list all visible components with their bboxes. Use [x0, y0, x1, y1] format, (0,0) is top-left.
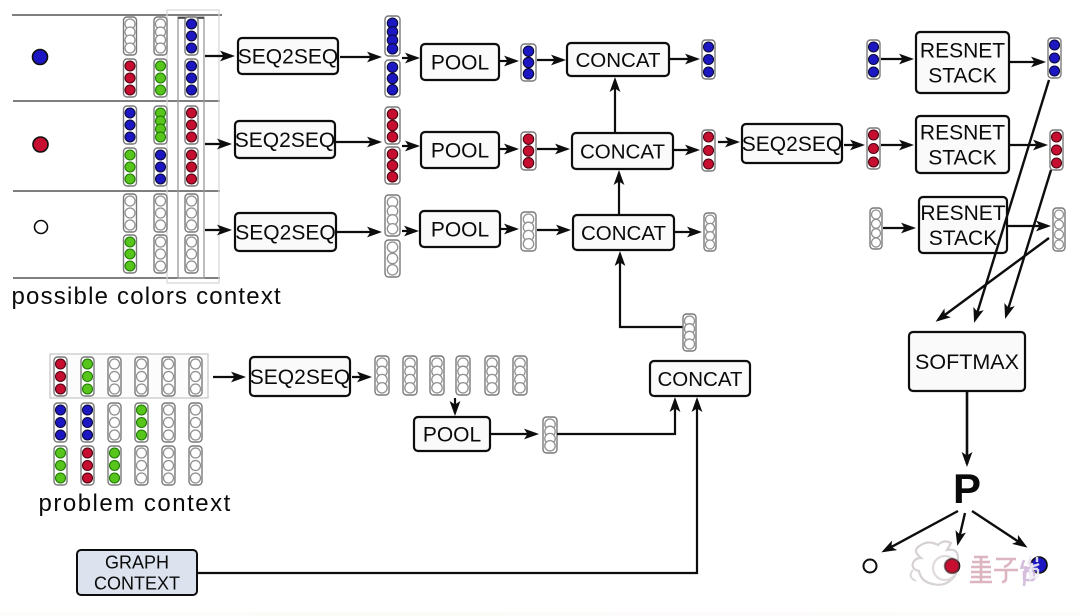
arrow pills to pool row1	[402, 57, 417, 59]
pill ctx r2c3 bottom	[185, 148, 198, 186]
arrow pool out problem	[491, 433, 536, 435]
pill problem r2c3	[108, 403, 121, 442]
pill ctx r1c2 top	[154, 17, 167, 55]
arrow table to seq2seq row2	[205, 143, 229, 145]
box SEQ2SEQ row2 second	[742, 124, 842, 163]
pill ctx r1c2 bottom	[154, 59, 167, 97]
arrow pool to pill row1	[500, 60, 516, 62]
arrow concat out row3	[675, 231, 699, 233]
arrow P to blue	[972, 511, 1025, 546]
svg-text:CONTEXT: CONTEXT	[94, 574, 180, 594]
arrow pill to concat row2	[537, 148, 567, 150]
arrow table to seq2seq row3	[205, 229, 229, 231]
watermark logo	[911, 541, 958, 584]
pill resnet in row2	[867, 128, 880, 169]
pill pool out row3	[521, 212, 536, 251]
arrow problem to seq2seq	[213, 376, 243, 378]
svg-text:POOL: POOL	[431, 140, 489, 163]
pill problem r2c5	[162, 403, 175, 442]
pill resnet in row1	[867, 40, 880, 79]
svg-text:possible colors context: possible colors context	[12, 283, 282, 310]
arrow seq2seq2 to pill row2	[844, 144, 862, 146]
pill problem seq out 1	[375, 356, 389, 395]
pill ctx r1c1 top	[124, 17, 137, 55]
pill problem r3c3	[108, 446, 121, 485]
pill ctx r1c1 bottom	[124, 59, 137, 97]
svg-text:GRAPH: GRAPH	[105, 552, 169, 572]
svg-text:SEQ2SEQ: SEQ2SEQ	[250, 366, 350, 389]
pill pool out row1	[521, 44, 536, 81]
arrow white pill to softmax	[938, 238, 1049, 320]
svg-text:RESNET: RESNET	[920, 122, 1005, 145]
box CONCAT bottom	[650, 361, 750, 396]
svg-text:SEQ2SEQ: SEQ2SEQ	[238, 46, 338, 69]
box GRAPH CONTEXT	[77, 550, 197, 595]
arrow P to red	[958, 513, 965, 543]
box POOL row1	[421, 44, 499, 80]
pill ctx r2c1 bottom	[124, 148, 137, 186]
pill ctx r3c2 top	[154, 194, 167, 232]
pill problem r3c1	[54, 446, 67, 485]
pill problem seq out 4	[456, 356, 470, 395]
pill ctx r3c3 bottom	[185, 235, 198, 273]
svg-text:P: P	[953, 465, 981, 512]
pill resnet out row1	[1048, 38, 1061, 78]
watermark ring over red dot	[938, 562, 945, 576]
arrow pill to resnet row3	[883, 227, 913, 229]
box POOL problem	[414, 417, 490, 451]
box CONCAT row3	[573, 215, 674, 250]
svg-text:STACK: STACK	[928, 147, 996, 170]
svg-text:POOL: POOL	[423, 424, 481, 447]
arrow up into concat4 left	[674, 400, 676, 408]
node red color option	[33, 137, 48, 152]
svg-text:SOFTMAX: SOFTMAX	[915, 350, 1019, 374]
pill ctx r3c1 top	[124, 194, 137, 232]
arrow pill to concat row3	[537, 229, 568, 231]
pill resnet out row3	[1053, 208, 1065, 251]
table row line 4	[13, 277, 220, 279]
pill problem r1c4	[135, 357, 148, 396]
svg-text:CONCAT: CONCAT	[575, 49, 661, 72]
svg-text:RESNET: RESNET	[920, 202, 1005, 225]
pill problem r2c2	[81, 403, 94, 442]
arrow pill to resnet row2	[881, 144, 911, 146]
table row line 1	[12, 14, 222, 16]
pill problem seq out 3	[430, 356, 444, 395]
pill problem r3c4	[135, 446, 148, 485]
box SOFTMAX	[909, 332, 1025, 391]
pill problem r1c1	[54, 357, 67, 396]
pill seq out row1 top	[385, 16, 400, 56]
svg-text:STACK: STACK	[929, 227, 997, 250]
pill seq out row2 top	[385, 107, 400, 144]
box SEQ2SEQ row1	[238, 38, 338, 74]
box RESNET STACK row3	[919, 197, 1007, 253]
node red outcome	[945, 559, 960, 574]
svg-text:CONCAT: CONCAT	[657, 368, 743, 391]
pill pool out problem	[543, 417, 557, 453]
pill ctx r3c2 bottom	[154, 235, 167, 273]
arrow seq2seq to pills row3	[337, 231, 379, 233]
highlight box problem row1	[50, 354, 208, 398]
box RESNET STACK row1	[916, 32, 1009, 93]
pill concat out row2	[702, 130, 715, 171]
svg-text:STACK: STACK	[928, 65, 996, 88]
pill problem r1c3	[108, 357, 121, 396]
arrow resnet out row2	[1010, 144, 1045, 146]
arrow pills to pool row2	[402, 145, 417, 147]
arrow pool to pill row2	[500, 148, 516, 150]
arrow concat out row1	[670, 58, 697, 60]
node white outcome	[864, 560, 877, 573]
svg-text:CONCAT: CONCAT	[580, 140, 666, 163]
svg-text:POOL: POOL	[431, 52, 489, 75]
arrow concat2 up to concat1	[614, 80, 616, 132]
svg-text:SEQ2SEQ: SEQ2SEQ	[742, 133, 842, 156]
pill problem r1c2	[81, 357, 94, 396]
arrow P to white	[884, 511, 958, 551]
pill problem r3c5	[162, 446, 175, 485]
pill problem r1c6	[189, 357, 202, 396]
arrow blue pill to softmax	[975, 80, 1049, 320]
arrow up into concat4 right	[696, 400, 698, 408]
box SEQ2SEQ row2	[235, 121, 335, 158]
pill problem r3c6	[189, 446, 202, 485]
box POOL row2	[421, 132, 499, 168]
pill ctx r2c1 top	[124, 106, 137, 144]
column highlight top edge	[178, 17, 204, 19]
svg-text:SEQ2SEQ: SEQ2SEQ	[235, 129, 335, 152]
arrow softmax to P	[966, 391, 969, 464]
arrow down to pool problem	[454, 398, 456, 413]
pill ctx r2c3 top	[185, 106, 198, 144]
pill ctx r3c1 bottom	[124, 235, 137, 273]
pill ctx r2c2 bottom	[154, 148, 167, 186]
arrow table to seq2seq row1	[205, 55, 232, 57]
arrow concat out row2	[674, 149, 697, 151]
arrow seq2seq to pills row1	[340, 56, 379, 58]
watermark text quantum bit	[970, 557, 1034, 586]
arrow pill to resnet row1	[881, 58, 911, 60]
pill problem r3c2	[81, 446, 94, 485]
pill problem r2c1	[54, 403, 67, 442]
box CONCAT row1	[567, 43, 669, 76]
arrow pill to seq2seq2 row2	[718, 141, 737, 143]
wire pill to concat3 elbow	[620, 256, 683, 327]
box CONCAT row2	[572, 133, 673, 169]
arrow seq2seq out problem	[352, 376, 369, 378]
pill resnet in row3	[870, 208, 882, 249]
pill seq out row2 bottom	[385, 147, 400, 184]
pill concat4 out	[683, 314, 696, 351]
arrow resnet out row1	[1010, 61, 1043, 63]
node white color option	[35, 221, 48, 234]
node blue outcome	[1031, 557, 1047, 573]
pill seq out row1 bottom	[385, 60, 400, 97]
pill seq out row3 top	[385, 195, 400, 236]
pill pool out row2	[521, 132, 536, 170]
wire pool pill to concat4	[557, 402, 675, 434]
watermark glyph over blue dot	[1028, 556, 1039, 580]
table row line 2	[13, 100, 220, 102]
arrow seq2seq to pills row2	[336, 141, 379, 143]
arrow pool to pill row3	[501, 228, 516, 230]
pill ctx r3c3 top	[185, 194, 198, 232]
pill resnet out row2	[1050, 130, 1063, 170]
svg-text:CONCAT: CONCAT	[581, 222, 667, 245]
pill ctx r1c3 bottom	[185, 59, 198, 97]
arrow up into concat3	[619, 254, 621, 262]
pill problem r1c5	[162, 357, 175, 396]
arrow pills to pool row3	[402, 230, 416, 232]
svg-text:SEQ2SEQ: SEQ2SEQ	[235, 222, 335, 245]
column highlight outer	[167, 10, 219, 283]
arrow red pill to softmax	[1006, 170, 1051, 316]
arrow pill to concat row1	[537, 59, 563, 61]
box SEQ2SEQ problem	[250, 357, 350, 396]
svg-text:problem context: problem context	[39, 490, 232, 517]
pill ctx r2c2 top	[154, 106, 167, 144]
node red outcome overlay	[945, 559, 959, 573]
column highlight box	[178, 17, 204, 278]
pill problem r2c6	[189, 403, 202, 442]
box RESNET STACK row2	[916, 116, 1009, 173]
wire graph context to concat4	[197, 402, 697, 573]
pill problem seq out 5	[485, 356, 499, 395]
svg-text:POOL: POOL	[431, 219, 489, 242]
box POOL row3	[420, 211, 500, 247]
pill seq out row3 bottom	[385, 240, 400, 277]
arrow concat3 up to concat2	[618, 173, 620, 214]
pill ctx r1c3 top	[185, 17, 198, 55]
node blue color option	[33, 50, 48, 65]
box SEQ2SEQ row3	[235, 213, 336, 251]
pill problem seq out 2	[403, 356, 417, 395]
watermark bottom band	[0, 612, 1080, 616]
pill problem r2c4	[135, 403, 148, 442]
pill concat out row1	[702, 40, 715, 79]
arrow resnet out row3	[1008, 225, 1048, 227]
pill problem seq out 6	[513, 356, 527, 395]
svg-text:RESNET: RESNET	[920, 40, 1005, 63]
table row line 3	[13, 190, 220, 192]
pill concat out row3	[704, 213, 716, 251]
